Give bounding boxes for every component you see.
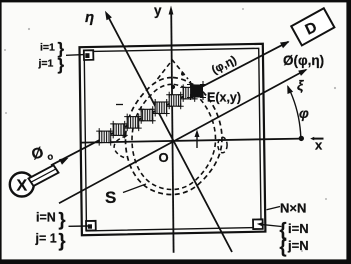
collimator: [29, 165, 59, 186]
corner cell i=1 j=1: [84, 50, 94, 60]
xi axis arrowhead: [298, 69, 307, 76]
small arrow on x-axis: [196, 134, 198, 149]
phantom inner dashed outline: [132, 84, 216, 189]
svg-text:j=1: j=1: [38, 58, 54, 70]
grid frame outer (square N x N region): [80, 44, 266, 235]
corner cell i=N j=N: [253, 219, 263, 229]
hatched cell 1: [96, 128, 114, 146]
hatched cell 5: [152, 99, 170, 117]
beam label Phi0: [30, 142, 55, 167]
photo border bottom: [0, 259, 351, 264]
pointer line to corner cell i=N j=1: [69, 225, 89, 227]
x-axis label bar (vector bar over x): [313, 138, 324, 140]
dot on y-axis: [171, 85, 175, 89]
photo border top: [0, 0, 351, 2]
svg-text:i=N: i=N: [36, 211, 56, 225]
pointer arrow to corner cell i=N j=N: [260, 224, 282, 226]
detector D box: [291, 8, 334, 45]
pointer line to corner cell i=1 j=1: [66, 54, 84, 57]
svg-text:E(x,y): E(x,y): [207, 91, 241, 105]
y-axis arrowhead: [169, 6, 174, 15]
svg-text:}: }: [59, 210, 66, 230]
scan speck 7: [325, 198, 327, 200]
dot near phantom peak: [181, 72, 184, 75]
hatched cell 7: [180, 84, 198, 102]
svg-text:{: {: [280, 237, 287, 257]
svg-text:ξ: ξ: [297, 77, 304, 93]
pointer line NxN: [267, 207, 281, 210]
corner cell i=N j=1: [86, 221, 96, 231]
small dash mark: [116, 104, 123, 106]
svg-text:O: O: [159, 150, 169, 165]
blob in corner cell i=N j=1: [88, 224, 92, 228]
photo border left: [0, 0, 2, 264]
hatched cell 3: [124, 114, 142, 132]
eta axis: [107, 14, 233, 253]
svg-text:j=N: j=N: [287, 238, 309, 253]
scan speck 4: [334, 87, 336, 89]
phantom top spike: [158, 60, 189, 79]
phantom outer dashed outline: [125, 78, 221, 195]
svg-text:η: η: [85, 9, 94, 26]
phantom right lobe: [218, 137, 227, 153]
x-axis label bar arrow tip: [310, 137, 314, 141]
svg-text:X: X: [16, 178, 27, 195]
scan speck 2: [5, 112, 7, 114]
ray arrowhead at detector: [280, 41, 290, 48]
phantom label pointer: [123, 184, 146, 193]
svg-text:}: }: [59, 231, 66, 251]
svg-text:S: S: [105, 188, 116, 207]
svg-text:i=1: i=1: [40, 42, 55, 54]
scan speck 5: [301, 250, 303, 252]
y-axis: [171, 10, 173, 253]
scan speck 1: [4, 49, 6, 51]
grid frame inner: [84, 48, 261, 231]
x-axis: [81, 139, 301, 143]
collimator middle line: [31, 169, 56, 182]
hatched cell 2: [110, 121, 128, 138]
pixel E(x,y) filled: [187, 81, 206, 100]
scan speck 3: [28, 28, 30, 30]
x-axis end dot: [299, 136, 304, 141]
ray arrowhead near source: [59, 158, 69, 165]
svg-text:Ø(φ,η): Ø(φ,η): [283, 53, 324, 68]
phi arc arrowhead: [287, 85, 293, 94]
ray from X source to detector D: [51, 42, 289, 166]
hatched cell 4: [138, 106, 156, 124]
svg-text:y: y: [154, 3, 162, 18]
phantom left lobe: [114, 136, 128, 159]
svg-text:j= 1: j= 1: [35, 232, 57, 246]
svg-text:x: x: [315, 138, 323, 153]
arrowhead into corner cell: [257, 222, 264, 227]
photo border right: [346, 0, 351, 264]
svg-text:i=N: i=N: [288, 221, 309, 236]
svg-text:φ: φ: [299, 105, 309, 121]
small arrow head: [195, 130, 200, 138]
phi arc: [288, 87, 301, 138]
blob in corner cell i=1 j=1: [85, 53, 89, 58]
svg-text:N×N: N×N: [280, 201, 306, 216]
X-ray source circle: [10, 173, 34, 197]
scan speck 6: [242, 8, 244, 10]
hatched cell 6: [166, 92, 184, 110]
xi axis (S direction through origin): [59, 70, 306, 203]
svg-text:}: }: [58, 55, 65, 74]
eta axis arrowhead: [105, 11, 112, 20]
